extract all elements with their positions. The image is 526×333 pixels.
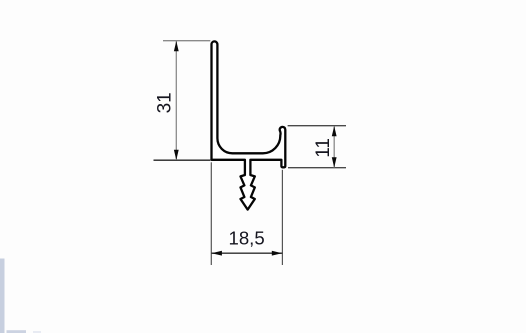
extension line: bottom of profile left (for 31) <box>154 159 211 161</box>
dimension line 18,5 <box>211 252 282 254</box>
dimension line 11 <box>333 126 335 168</box>
left edge partial scrollbar strip <box>0 259 5 333</box>
arrowhead 11 top <box>332 126 337 136</box>
arrowhead 31 bottom <box>174 150 179 160</box>
svg-text:11: 11 <box>313 138 334 158</box>
svg-text:18,5: 18,5 <box>228 228 264 249</box>
extension line: bottom of lip (for 11) <box>288 167 346 169</box>
bottom edge cropped artifact blob <box>7 330 27 333</box>
extension line: top of profile (for 31) <box>163 40 210 42</box>
extension line: left (for 18,5) <box>210 162 212 265</box>
arrowhead 18,5 right <box>272 251 282 256</box>
arrowhead 31 top <box>174 41 179 51</box>
arrowhead 11 bottom <box>332 157 337 167</box>
svg-text:31: 31 <box>154 92 175 113</box>
bottom edge faint artifact <box>33 331 41 333</box>
aluminium profile cross-section outline (J-channel with barbed spike) <box>212 41 286 209</box>
dimension line 31 <box>175 41 177 160</box>
extension line: right (for 18,5) <box>281 170 283 265</box>
arrowhead 18,5 left <box>212 251 222 256</box>
extension line: top of lip (for 11) <box>288 125 346 127</box>
